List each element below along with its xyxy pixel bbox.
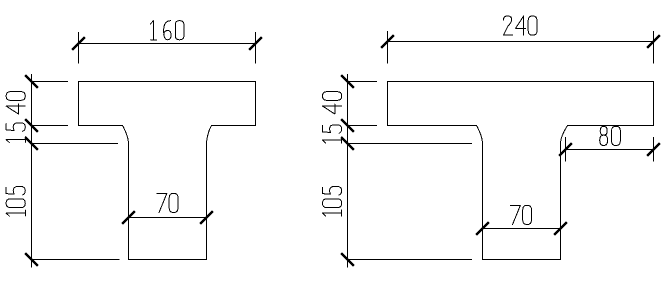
extension line at flange top (right) <box>348 81 378 83</box>
left T-beam section outline <box>79 82 256 260</box>
extension line at taper bottom (right) <box>348 143 473 145</box>
dimension text "240" (right flange width) <box>503 16 537 35</box>
extension line right (240) <box>653 31 655 64</box>
extension line at flange bottom (right) <box>348 125 378 127</box>
extension line right (160) <box>255 32 257 64</box>
dimension line 80 (right flange overhang) <box>566 149 654 151</box>
tick taper bottom (15/105 right) <box>341 137 354 150</box>
dimension chain line (left section) <box>31 74 33 268</box>
extension line right (80) <box>653 137 655 162</box>
tick section bottom (105 right) <box>341 253 354 266</box>
tick flange top (40 right) <box>341 75 354 88</box>
dimension text "15" (right taper height 15) <box>323 125 342 143</box>
extension line left (240) <box>387 31 389 64</box>
tick left (240) <box>381 35 394 48</box>
tick right (80) <box>647 143 660 156</box>
dimension text "105" (right web height 105) <box>323 186 342 216</box>
dimension line 240 <box>388 41 654 43</box>
extension line at taper bottom <box>32 143 119 145</box>
tick left (70) <box>122 211 135 224</box>
extension line at flange top <box>32 81 69 83</box>
tick taper bottom (15/105) <box>25 137 38 150</box>
tick right (160) <box>249 37 262 50</box>
dimension text "40" (left flange thickness 40) <box>6 92 25 114</box>
extension line at section bottom <box>32 259 120 261</box>
dimension chain line (right section) <box>347 74 349 268</box>
dimension line 70 (left web width) <box>129 217 207 219</box>
tick right (70) <box>200 211 213 224</box>
extension line left (80) <box>565 137 567 162</box>
dimension text "15" (left taper height 15) <box>6 123 25 143</box>
tick flange bottom (40/15 right) <box>341 119 354 132</box>
tick right (240) <box>647 35 660 48</box>
tick left (160) <box>72 37 85 50</box>
dimension text "40" (right flange thickness 40) <box>323 92 342 114</box>
dimension text "70" (left web width) <box>157 193 178 212</box>
dimension line 160 <box>79 43 256 45</box>
tick left (70 right) <box>476 222 489 235</box>
tick flange top (40) <box>25 75 38 88</box>
dimension text "105" (left web height 105) <box>6 186 25 216</box>
tick flange bottom (40/15) <box>25 119 38 132</box>
dimension text "80" (right flange overhang) <box>600 126 621 145</box>
extension line at flange bottom <box>32 125 69 127</box>
tick left (80) <box>559 143 572 156</box>
dimension text "160" (left flange width) <box>150 21 184 40</box>
extension line at section bottom (right) <box>348 259 473 261</box>
right T-beam section outline <box>388 82 654 260</box>
extension line left (160) <box>78 32 80 64</box>
dimension text "70" (right web width) <box>511 205 532 224</box>
tick section bottom (105) <box>25 253 38 266</box>
dimension line 70 (right web width) <box>483 228 561 230</box>
tick right (70 right) <box>554 222 567 235</box>
